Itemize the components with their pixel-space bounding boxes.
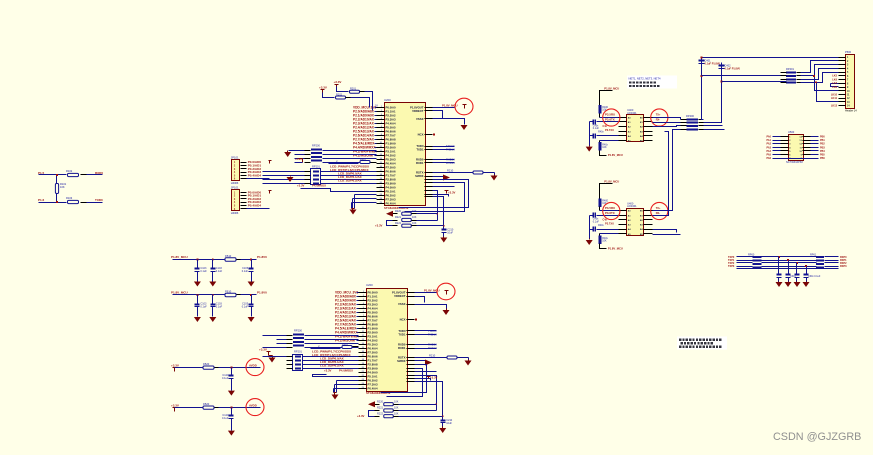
svg-text:FB20: FB20 [203, 402, 210, 406]
svg-text:+3.3V: +3.3V [357, 414, 365, 418]
svg-text:R210: R210 [429, 354, 436, 358]
svg-text:R205: R205 [360, 158, 366, 161]
svg-text:TXD0: TXD0 [95, 198, 103, 202]
svg-text:LK13: LK13 [831, 105, 838, 108]
svg-text:P3.5RX: P3.5RX [605, 113, 615, 117]
svg-text:+3.3V: +3.3V [375, 224, 383, 228]
svg-text:10K: 10K [394, 412, 399, 415]
svg-text:PA2: PA2 [767, 143, 772, 146]
svg-text:TXP3: TXP3 [728, 265, 735, 268]
svg-text:RP401: RP401 [786, 67, 794, 71]
svg-text:10K: 10K [394, 400, 399, 403]
svg-text:P3.7XX: P3.7XX [605, 128, 614, 132]
svg-text:R220: R220 [395, 210, 402, 213]
svg-text:HDR6: HDR6 [231, 211, 239, 215]
svg-text:10K: 10K [412, 210, 417, 213]
svg-text:RXD0X: RXD0X [428, 342, 437, 346]
svg-text:RXD1: RXD1 [398, 346, 406, 350]
svg-text:TXD0X: TXD0X [446, 144, 455, 148]
svg-text:R222: R222 [377, 412, 384, 415]
svg-text:P1.8V_MCU: P1.8V_MCU [608, 246, 623, 250]
svg-text:10K: 10K [394, 407, 399, 410]
svg-text:PB6: PB6 [820, 157, 825, 160]
svg-text:SWDX: SWDX [397, 359, 406, 363]
svg-text:P1.8V_MCU: P1.8V_MCU [604, 86, 619, 90]
svg-text:U200: U200 [384, 98, 391, 102]
svg-text:P4.0/MOSI: P4.0/MOSI [339, 368, 353, 372]
svg-text:PA4: PA4 [767, 150, 772, 153]
svg-text:10K: 10K [602, 146, 607, 149]
svg-text:R205: R205 [342, 343, 348, 346]
svg-text:LK6: LK6 [832, 78, 837, 81]
svg-text:R40x: R40x [598, 131, 604, 134]
svg-text:0.1uF: 0.1uF [593, 220, 600, 223]
svg-text:LCD_D2/P6.2/AX: LCD_D2/P6.2/AX [338, 179, 362, 183]
svg-text:0.1uF: 0.1uF [242, 270, 249, 273]
svg-text:TXD1: TXD1 [398, 333, 406, 337]
svg-text:U500: U500 [788, 130, 795, 134]
svg-text:VDDEXT: VDDEXT [412, 109, 424, 113]
svg-text:PB2: PB2 [820, 143, 825, 146]
svg-text:FB20: FB20 [203, 362, 210, 366]
svg-text:RXP3: RXP3 [840, 265, 847, 268]
svg-text:C4x: C4x [603, 125, 608, 128]
svg-text:LK10: LK10 [831, 93, 838, 96]
svg-text:P1.8V0: P1.8V0 [257, 291, 267, 295]
svg-text:0.1uF P1.8V0: 0.1uF P1.8V0 [725, 68, 741, 71]
svg-text:TX+: TX+ [656, 113, 661, 117]
svg-text:0.1uF: 0.1uF [216, 270, 223, 273]
svg-text:P0.4/A4: P0.4/A4 [368, 387, 379, 391]
svg-text:CSDN @GJZGRB: CSDN @GJZGRB [773, 431, 861, 443]
svg-text:10uF: 10uF [446, 422, 452, 425]
svg-text:LK5: LK5 [832, 75, 837, 78]
svg-text:PA0: PA0 [767, 136, 772, 139]
svg-text:RXD1X: RXD1X [446, 161, 455, 165]
svg-text:10K: 10K [412, 216, 417, 219]
svg-text:C4x: C4x [603, 219, 608, 222]
svg-text:R222: R222 [395, 222, 402, 225]
svg-text:TXD1X: TXD1X [446, 147, 455, 151]
svg-text:P3.6TX: P3.6TX [605, 118, 615, 122]
svg-text:+3.3V: +3.3V [430, 375, 438, 379]
svg-text:TXD0X: TXD0X [428, 329, 437, 333]
svg-text:NET1, NET2, NET3, NET4: NET1, NET2, NET3, NET4 [629, 77, 661, 81]
svg-text:PA5: PA5 [767, 154, 772, 157]
svg-text:NCX: NCX [400, 318, 406, 322]
svg-text:P1.8V_MCU: P1.8V_MCU [171, 255, 188, 259]
svg-text:JP101: JP101 [231, 186, 239, 190]
svg-text:0.1uF: 0.1uF [216, 306, 223, 309]
svg-text:JP101: JP101 [231, 155, 239, 159]
svg-text:0.1uF P1.8V0: 0.1uF P1.8V0 [705, 63, 721, 66]
svg-text:R202: R202 [336, 93, 343, 96]
svg-text:RX-: RX- [656, 211, 661, 215]
svg-text:C60x 0.1uF: C60x 0.1uF [808, 275, 821, 278]
svg-text:10K: 10K [602, 240, 607, 243]
svg-text:PB5: PB5 [820, 154, 825, 157]
svg-text:PB1: PB1 [820, 139, 825, 142]
svg-text:LK11: LK11 [831, 97, 838, 100]
svg-text:RP400: RP400 [686, 114, 694, 118]
svg-text:PB4: PB4 [820, 150, 825, 153]
svg-text:0.1uF: 0.1uF [242, 306, 249, 309]
svg-text:AO3401: AO3401 [627, 204, 637, 208]
svg-text:R103: R103 [66, 196, 73, 200]
svg-text:P3.5RX: P3.5RX [605, 206, 615, 210]
svg-text:P3.6TX: P3.6TX [605, 211, 615, 215]
svg-text:10K: 10K [60, 185, 65, 189]
svg-text:P3.7XX: P3.7XX [605, 221, 614, 225]
svg-text:FB10: FB10 [225, 289, 232, 293]
svg-text:0.1uF: 0.1uF [222, 377, 229, 380]
svg-text:10K: 10K [412, 222, 417, 225]
svg-text:R221: R221 [395, 216, 402, 219]
svg-text:U200: U200 [366, 283, 373, 287]
svg-text:P1.8V_MCU: P1.8V_MCU [608, 153, 623, 157]
svg-text:Header 14: Header 14 [845, 110, 857, 113]
svg-text:PA3: PA3 [767, 146, 772, 149]
svg-text:RXD0X: RXD0X [446, 157, 455, 161]
svg-text:PA6: PA6 [767, 157, 772, 160]
svg-text:P0.4/AD4: P0.4/AD4 [248, 204, 262, 208]
svg-text:PB0: PB0 [820, 136, 825, 139]
svg-text:RP200: RP200 [294, 329, 302, 333]
svg-text:P1.8V_MCU: P1.8V_MCU [171, 291, 188, 295]
svg-text:C601: C601 [790, 275, 796, 278]
svg-text:+3.3V: +3.3V [259, 348, 267, 352]
svg-text:RP200: RP200 [312, 144, 320, 148]
svg-text:LCD_D2/P6.2/AX: LCD_D2/P6.2/AX [320, 364, 344, 368]
svg-text:0.1uF: 0.1uF [200, 270, 207, 273]
svg-text:VDDEXT: VDDEXT [394, 294, 406, 298]
svg-text:R221: R221 [377, 407, 384, 410]
svg-text:R201: R201 [350, 88, 357, 91]
svg-text:10uF: 10uF [447, 231, 453, 234]
svg-text:R220: R220 [377, 400, 384, 403]
svg-text:P1.6: P1.6 [38, 198, 45, 202]
svg-text:AVDD: AVDD [249, 363, 257, 367]
svg-text:P500: P500 [845, 50, 852, 54]
svg-text:R210: R210 [447, 169, 454, 173]
svg-text:0.1uF: 0.1uF [593, 127, 600, 130]
svg-text:SWDX: SWDX [415, 174, 424, 178]
svg-text:NCX: NCX [418, 133, 424, 137]
svg-text:TXD1: TXD1 [416, 148, 424, 152]
svg-text:+3.3V: +3.3V [171, 363, 179, 367]
svg-text:RP201: RP201 [312, 165, 320, 169]
svg-text:RX-: RX- [656, 118, 661, 122]
svg-text:P1.8V0: P1.8V0 [257, 255, 267, 259]
svg-text:P0.4/A4: P0.4/A4 [386, 202, 397, 206]
svg-text:0.1uF: 0.1uF [222, 417, 229, 420]
svg-text:P4.0/MOSI: P4.0/MOSI [312, 183, 326, 187]
svg-text:VSSX: VSSX [398, 302, 406, 306]
svg-text:0.1uF: 0.1uF [200, 306, 207, 309]
svg-text:VSSX: VSSX [416, 117, 424, 121]
svg-text:+3.3V: +3.3V [319, 86, 327, 90]
svg-text:R40x: R40x [598, 224, 604, 227]
svg-text:LK7: LK7 [832, 82, 837, 85]
svg-text:R102: R102 [66, 169, 73, 173]
svg-text:RP201: RP201 [294, 350, 302, 354]
svg-text:+3.3V: +3.3V [324, 368, 332, 372]
svg-text:+3.3V: +3.3V [171, 403, 179, 407]
svg-text:+3.3V: +3.3V [448, 190, 456, 194]
svg-text:RXD1: RXD1 [416, 161, 424, 165]
svg-text:LK8: LK8 [832, 86, 837, 89]
svg-text:PA1: PA1 [767, 139, 772, 142]
svg-text:TX+: TX+ [656, 206, 661, 210]
svg-text:NC7WZ16P6X: NC7WZ16P6X [786, 160, 803, 164]
svg-text:TXD1X: TXD1X [428, 332, 437, 336]
svg-text:PB3: PB3 [820, 146, 825, 149]
svg-text:AVDD: AVDD [249, 403, 257, 407]
svg-text:HDR6: HDR6 [231, 181, 239, 185]
svg-text:P0.4/AD4: P0.4/AD4 [248, 173, 262, 177]
svg-text:RXD1X: RXD1X [428, 346, 437, 350]
svg-text:FB10: FB10 [225, 254, 232, 258]
svg-text:+3.3V: +3.3V [334, 80, 342, 84]
svg-text:RP61: RP61 [810, 254, 817, 257]
